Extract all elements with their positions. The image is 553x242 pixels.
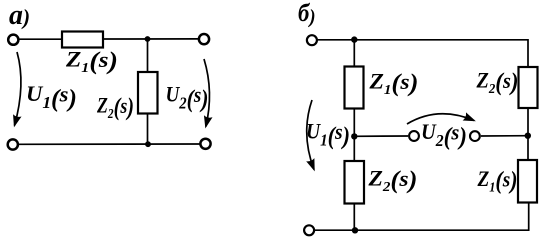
node junction dot top-left branch (circuit b) — [351, 36, 357, 42]
terminal bottom-right (circuit a) — [200, 139, 210, 149]
svg-text:а): а) — [9, 0, 30, 31]
terminal U2 right (circuit b middle) — [470, 131, 480, 141]
terminal top-left (circuit a) — [8, 35, 18, 45]
arrow U2 (circuit b, arc pointing right) — [407, 114, 474, 124]
wire Z1 box to top-right terminal — [103, 38, 198, 40]
terminal U2 left (circuit b middle) — [409, 131, 419, 141]
bottom wire rail (circuit b) — [315, 203, 529, 230]
node junction dot bottom-left branch (circuit b) — [352, 227, 358, 233]
wire Z2 box to middle node (circuit b right) — [527, 108, 529, 160]
top wire rail with right corner (circuit b) — [318, 40, 529, 67]
node junction dot bottom (circuit a) — [145, 141, 151, 147]
node junction dot top (circuit a) — [145, 36, 151, 42]
resistor box Z2(s) (circuit b, lower-left) — [345, 161, 365, 204]
terminal top-right (circuit a) — [199, 34, 209, 44]
terminal top-left (circuit b) — [307, 35, 317, 45]
wire junction down to Z2 box — [147, 39, 149, 72]
terminal bottom-left (circuit b) — [304, 225, 314, 235]
arrow U1 (circuit a, curved down) — [15, 52, 21, 126]
wire Z2 box to bottom rail (circuit b left) — [353, 204, 355, 231]
terminal bottom-left (circuit a) — [8, 139, 18, 149]
resistor box Z1(s) (circuit b, upper-left) — [345, 67, 364, 109]
wire Z2 box to bottom rail — [147, 114, 149, 145]
resistor box Z1(s) (circuit b, lower-right) — [518, 160, 537, 203]
node junction dot middle-left (circuit b) — [351, 133, 357, 139]
arrow U2 (circuit a, curved down) — [204, 59, 209, 127]
resistor box Z1(s) (circuit a, series) — [62, 32, 103, 48]
resistor box Z2(s) (circuit b, upper-right) — [519, 67, 538, 108]
middle wire U2 terminal to right node (circuit b) — [481, 135, 528, 137]
arrow U1 (circuit b, curved down) — [307, 100, 314, 170]
wire junction down to Z1 box (circuit b left) — [353, 40, 355, 68]
node junction dot middle-right (circuit b) — [525, 133, 531, 139]
bottom wire rail (circuit a) — [19, 143, 200, 145]
wire Z1 box to middle node (circuit b left) — [353, 109, 355, 162]
middle wire left node to U2 terminal (circuit b) — [354, 135, 408, 137]
resistor box Z2(s) (circuit a, shunt) — [138, 72, 158, 114]
wire top-left to Z1 box — [19, 38, 62, 40]
